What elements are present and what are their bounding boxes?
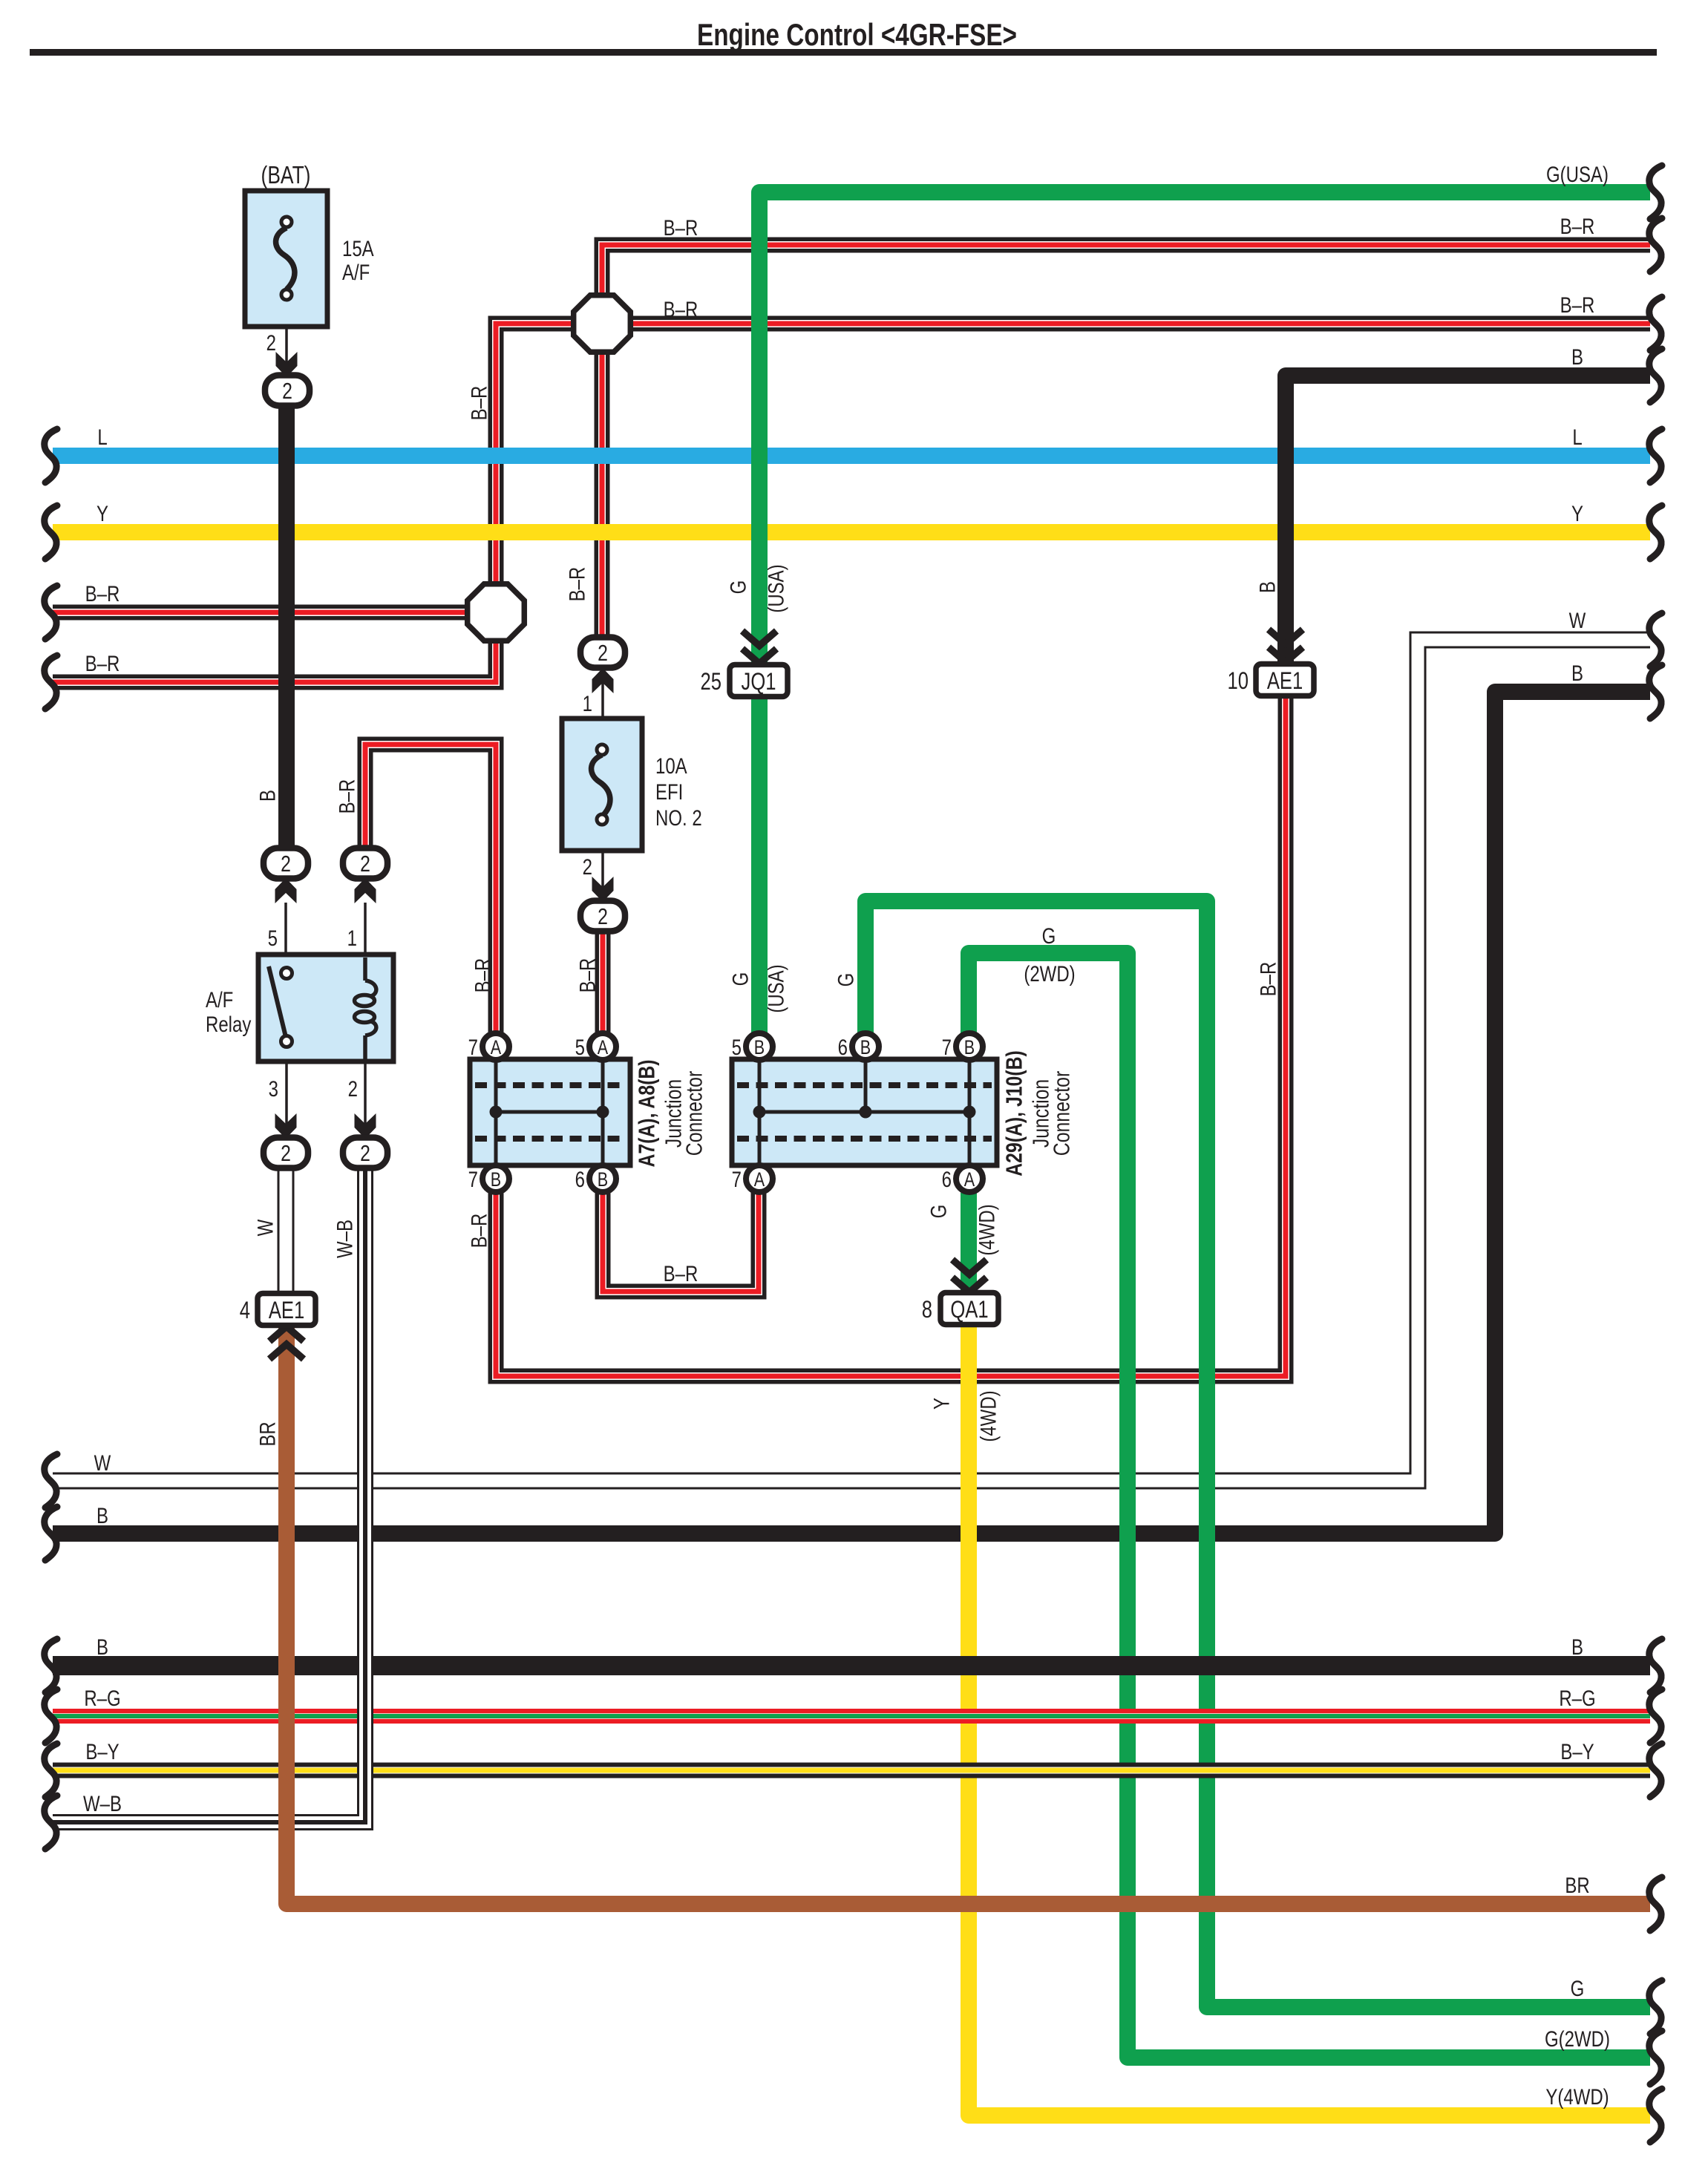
svg-text:B: B bbox=[754, 1037, 765, 1059]
svg-text:1: 1 bbox=[347, 925, 357, 950]
svg-text:2: 2 bbox=[281, 851, 291, 876]
svg-text:B: B bbox=[964, 1037, 975, 1059]
lead EFI fuse pin 2 bbox=[601, 825, 604, 900]
wire B-R octagon 1 bottom to EFI fuse connector bbox=[595, 351, 610, 638]
wire continuation squiggle left y=919 bbox=[45, 655, 57, 709]
wire B-R hook from relay pin 1 connector up and to junction connector pin 7A bbox=[365, 744, 496, 1035]
wire W staple right bbox=[53, 640, 1650, 1481]
pin 7B of junction connector 2 bbox=[956, 1033, 983, 1060]
svg-text:B: B bbox=[96, 1502, 108, 1528]
svg-text:6: 6 bbox=[575, 1166, 585, 1191]
title underline bbox=[30, 49, 1657, 56]
svg-text:2: 2 bbox=[583, 854, 592, 879]
svg-text:A/F: A/F bbox=[342, 259, 370, 284]
svg-text:BR: BR bbox=[255, 1421, 280, 1446]
svg-text:Y(4WD): Y(4WD) bbox=[1545, 2084, 1609, 2109]
svg-text:B–Y: B–Y bbox=[1560, 1738, 1594, 1764]
wire G(4WD) junction connector A29 pin 6A to QA1 bbox=[961, 1193, 977, 1294]
pin 7A of junction connector 2 bbox=[746, 1165, 773, 1192]
svg-text:A29(A), J10(B): A29(A), J10(B) bbox=[1001, 1050, 1027, 1176]
svg-text:G: G bbox=[833, 973, 858, 987]
connector 2 above relay pin 1 bbox=[355, 878, 376, 903]
wire continuation squiggle right y=862 bbox=[1649, 613, 1662, 667]
wire continuation squiggle left y=717 bbox=[45, 505, 57, 559]
svg-text:B: B bbox=[598, 1169, 608, 1191]
connector 2 above EFI fuse bbox=[592, 668, 614, 693]
svg-text:B–R: B–R bbox=[1255, 962, 1280, 997]
svg-text:1: 1 bbox=[583, 690, 592, 716]
wire B-R below AE1 10 down, left, up to junction connector pin 7B bbox=[496, 697, 1286, 1376]
wire continuation squiggle left y=825 bbox=[45, 586, 57, 639]
wire continuation squiggle right y=436 bbox=[1649, 297, 1662, 350]
svg-text:Relay: Relay bbox=[206, 1011, 252, 1036]
connector 2 below 15A fuse bbox=[265, 376, 310, 406]
wire continuation squiggle right y=330 bbox=[1649, 218, 1662, 272]
svg-text:A: A bbox=[964, 1169, 975, 1191]
wire R-G bottom bbox=[53, 1709, 1650, 1724]
svg-text:6: 6 bbox=[942, 1166, 952, 1191]
svg-text:Connector: Connector bbox=[1049, 1071, 1074, 1156]
svg-text:2: 2 bbox=[598, 903, 608, 929]
wire B-R U-shape pin 6B to pin 7A bbox=[603, 1191, 759, 1292]
svg-text:B–R: B–R bbox=[470, 958, 495, 993]
wire continuation squiggle right y=614 bbox=[1649, 429, 1662, 482]
wire B bottom full width bbox=[53, 1656, 1650, 1675]
wire B-R from octagon left down to octagon 2 bbox=[496, 324, 575, 586]
pin 6A of junction connector 2 bbox=[956, 1165, 983, 1192]
svg-text:2: 2 bbox=[282, 378, 292, 403]
wire G(USA) from top right through JQ1 to junction connector pin 5B bbox=[759, 192, 1650, 666]
svg-text:B–R: B–R bbox=[664, 215, 698, 240]
connector 2 below EFI fuse bbox=[580, 901, 625, 932]
wire B staple right bbox=[53, 692, 1650, 1534]
wire B thick from 15A fuse to relay pin 5 connector bbox=[278, 405, 295, 849]
lead 15A fuse to connector 2 bbox=[285, 300, 288, 375]
pin 7A of junction connector 1 bbox=[482, 1033, 509, 1060]
svg-text:L: L bbox=[1572, 424, 1582, 449]
junction connector A7(A), A8(B) bbox=[470, 1059, 630, 1165]
wire continuation squiggle right y=2244 bbox=[1649, 1639, 1662, 1692]
svg-text:EFI: EFI bbox=[655, 779, 683, 804]
svg-text:BR: BR bbox=[1565, 1872, 1589, 1897]
svg-text:JQ1: JQ1 bbox=[742, 669, 776, 695]
svg-text:(4WD): (4WD) bbox=[975, 1390, 1001, 1441]
pin 6B of junction connector 1 bbox=[589, 1165, 616, 1192]
lead relay pin 3 bbox=[285, 1048, 288, 1137]
svg-text:B–R: B–R bbox=[85, 580, 120, 606]
svg-text:B–R: B–R bbox=[664, 1260, 698, 1286]
svg-text:B–R: B–R bbox=[575, 958, 600, 993]
pin 6B of junction connector 2 bbox=[852, 1033, 879, 1060]
relay switch contact bbox=[269, 966, 286, 1037]
wire B-R #1 top (to octagon top) bbox=[602, 245, 1650, 296]
svg-text:B–R: B–R bbox=[466, 386, 491, 421]
connector AE1 pin 4 bbox=[269, 1344, 304, 1359]
svg-text:B–R: B–R bbox=[334, 779, 359, 814]
wire B-R #4 left (to octagon 2 bottom) bbox=[53, 639, 496, 682]
svg-text:8: 8 bbox=[922, 1297, 932, 1323]
svg-text:L: L bbox=[97, 424, 107, 449]
lead relay pin 2 bbox=[364, 1033, 367, 1137]
svg-text:Y: Y bbox=[929, 1398, 954, 1410]
svg-text:3: 3 bbox=[269, 1076, 278, 1101]
svg-text:7: 7 bbox=[468, 1034, 478, 1059]
svg-text:W: W bbox=[94, 1450, 111, 1475]
arrow into connector below 15A fuse bbox=[276, 352, 298, 377]
wire W from relay pin 3 connector down to AE1 pin 4 bbox=[278, 1168, 295, 1295]
svg-text:(4WD): (4WD) bbox=[974, 1204, 999, 1255]
svg-text:B–R: B–R bbox=[1560, 213, 1595, 238]
svg-text:Y: Y bbox=[1571, 500, 1583, 526]
wire B-R from EFI fuse connector down to junction connector pin 5A bbox=[595, 930, 611, 1035]
svg-text:5: 5 bbox=[268, 925, 278, 950]
svg-text:25: 25 bbox=[701, 669, 722, 695]
svg-text:5: 5 bbox=[732, 1034, 742, 1059]
wire continuation squiggle right y=2850 bbox=[1649, 2089, 1662, 2142]
svg-text:G: G bbox=[1042, 923, 1056, 948]
relay coil bbox=[363, 958, 367, 981]
wire G(2WD) from junction connector A29 pin 7B to right edge bbox=[969, 953, 1650, 2058]
wire continuation squiggle left y=2385 bbox=[45, 1744, 57, 1797]
junction octagon 1 bbox=[574, 295, 631, 353]
svg-text:G: G bbox=[727, 972, 753, 986]
svg-text:2: 2 bbox=[598, 640, 608, 665]
svg-text:A: A bbox=[491, 1037, 502, 1059]
svg-text:B–R: B–R bbox=[664, 296, 698, 321]
pin 5A of junction connector 1 bbox=[589, 1033, 616, 1060]
wire L blue bbox=[53, 448, 1650, 464]
svg-text:A/F: A/F bbox=[206, 986, 233, 1012]
svg-text:B: B bbox=[860, 1037, 871, 1059]
svg-text:10A: 10A bbox=[655, 753, 687, 778]
svg-text:10: 10 bbox=[1228, 668, 1249, 694]
junction octagon 2 bbox=[468, 584, 525, 641]
svg-text:(USA): (USA) bbox=[763, 564, 788, 612]
wire continuation squiggle left y=2244 bbox=[45, 1639, 57, 1692]
svg-text:6: 6 bbox=[838, 1034, 848, 1059]
wire Y yellow bbox=[53, 524, 1650, 540]
svg-text:7: 7 bbox=[468, 1166, 478, 1191]
wire B-Y bottom bbox=[53, 1763, 1650, 1778]
svg-text:W: W bbox=[1569, 607, 1586, 632]
svg-text:G: G bbox=[1571, 1975, 1585, 2000]
lead relay pin 1 bbox=[364, 903, 367, 958]
wire continuation squiggle right y=2385 bbox=[1649, 1744, 1662, 1797]
svg-text:B–R: B–R bbox=[85, 650, 120, 675]
wire continuation squiggle right y=2565 bbox=[1649, 1877, 1662, 1931]
svg-text:2: 2 bbox=[348, 1076, 358, 1101]
svg-text:G: G bbox=[926, 1205, 951, 1219]
svg-text:G(2WD): G(2WD) bbox=[1545, 2026, 1610, 2051]
wire continuation squiggle left y=2066 bbox=[45, 1507, 57, 1560]
lead EFI fuse pin 1 bbox=[601, 670, 604, 744]
svg-text:W–B: W–B bbox=[83, 1790, 122, 1816]
svg-text:A7(A), A8(B): A7(A), A8(B) bbox=[634, 1059, 659, 1167]
junction connector A29(A), J10(B) bbox=[732, 1059, 997, 1165]
svg-text:QA1: QA1 bbox=[950, 1297, 988, 1323]
wire continuation squiggle right y=506 bbox=[1649, 349, 1662, 402]
svg-text:R–G: R–G bbox=[1559, 1685, 1595, 1710]
connector JQ1 pin 25 bbox=[742, 631, 776, 646]
wire B-R #2 right of octagon bbox=[629, 316, 1650, 332]
svg-text:B: B bbox=[1571, 1634, 1583, 1659]
connector 2 above relay pin 5 bbox=[275, 878, 297, 903]
wire W-B from relay pin 2 connector down to left edge bbox=[53, 1168, 365, 1822]
connector 2 below relay pin 2 bbox=[355, 1113, 376, 1139]
svg-text:B–R: B–R bbox=[1560, 292, 1595, 317]
svg-text:2: 2 bbox=[266, 330, 276, 355]
svg-text:G(USA): G(USA) bbox=[1546, 161, 1609, 186]
wire continuation squiggle left y=1995 bbox=[45, 1454, 57, 1508]
wire continuation squiggle right y=932 bbox=[1649, 665, 1662, 719]
wire continuation squiggle left y=2455 bbox=[45, 1796, 57, 1849]
svg-text:(USA): (USA) bbox=[763, 964, 788, 1012]
wire B to connector AE1 pin 10 bbox=[1286, 376, 1650, 664]
svg-text:W–B: W–B bbox=[332, 1220, 357, 1258]
relay A/F bbox=[258, 955, 393, 1061]
svg-text:NO. 2: NO. 2 bbox=[655, 805, 702, 830]
wire continuation squiggle right y=259 bbox=[1649, 166, 1662, 219]
wire continuation squiggle right y=2704 bbox=[1649, 1980, 1662, 2034]
svg-text:(2WD): (2WD) bbox=[1024, 960, 1075, 986]
svg-text:Engine Control <4GR-FSE>: Engine Control <4GR-FSE> bbox=[697, 17, 1017, 52]
wire G from junction connector A29 pin 6B to right edge bbox=[866, 901, 1650, 2007]
connector 2 below relay pin 3 bbox=[275, 1113, 297, 1139]
svg-text:B: B bbox=[491, 1169, 501, 1191]
wire continuation squiggle right y=2772 bbox=[1649, 2031, 1662, 2084]
fuse 15A A/F (BAT) bbox=[245, 191, 327, 327]
svg-text:G: G bbox=[725, 580, 750, 595]
wire B-R #3 left (to octagon 2) bbox=[53, 605, 469, 621]
svg-text:4: 4 bbox=[240, 1297, 250, 1323]
pin 7B of junction connector 1 bbox=[482, 1165, 509, 1192]
svg-text:B: B bbox=[96, 1634, 108, 1659]
svg-text:15A: 15A bbox=[342, 235, 374, 261]
wire continuation squiggle left y=2312 bbox=[45, 1689, 57, 1743]
svg-text:B: B bbox=[1571, 660, 1583, 685]
svg-text:Connector: Connector bbox=[681, 1071, 707, 1156]
svg-text:(BAT): (BAT) bbox=[261, 162, 311, 189]
svg-text:A: A bbox=[598, 1037, 609, 1059]
svg-text:B: B bbox=[255, 790, 280, 802]
connector AE1 pin 10 bbox=[1269, 629, 1303, 644]
svg-text:Y: Y bbox=[96, 500, 108, 526]
connector QA1 pin 8 bbox=[952, 1260, 986, 1274]
svg-text:B–Y: B–Y bbox=[85, 1738, 119, 1764]
svg-text:7: 7 bbox=[732, 1166, 742, 1191]
svg-text:B: B bbox=[1254, 581, 1280, 593]
svg-text:2: 2 bbox=[360, 1140, 370, 1165]
svg-text:W: W bbox=[252, 1219, 278, 1236]
svg-text:2: 2 bbox=[281, 1140, 291, 1165]
svg-text:B: B bbox=[1571, 344, 1583, 369]
arrow below EFI fuse bbox=[592, 877, 614, 902]
fuse 10A EFI NO.2 bbox=[562, 719, 642, 851]
svg-text:5: 5 bbox=[575, 1034, 585, 1059]
svg-text:B–R: B–R bbox=[564, 567, 589, 602]
wire continuation squiggle right y=717 bbox=[1649, 505, 1662, 559]
svg-text:7: 7 bbox=[942, 1034, 952, 1059]
svg-text:A: A bbox=[754, 1169, 765, 1191]
wire continuation squiggle right y=2312 bbox=[1649, 1689, 1662, 1743]
svg-text:AE1: AE1 bbox=[269, 1297, 304, 1323]
svg-text:2: 2 bbox=[360, 851, 370, 876]
wire continuation squiggle left y=614 bbox=[45, 429, 57, 482]
wire Y(4WD) from QA1 to right edge bbox=[969, 1326, 1650, 2115]
lead relay pin 5 bbox=[284, 903, 287, 969]
svg-text:B–R: B–R bbox=[466, 1214, 491, 1248]
pin 5B of junction connector 2 bbox=[746, 1033, 773, 1060]
svg-text:AE1: AE1 bbox=[1267, 668, 1303, 694]
wire BR brown from AE1 pin 4 to right edge bbox=[287, 1326, 1650, 1904]
svg-text:R–G: R–G bbox=[84, 1685, 120, 1710]
